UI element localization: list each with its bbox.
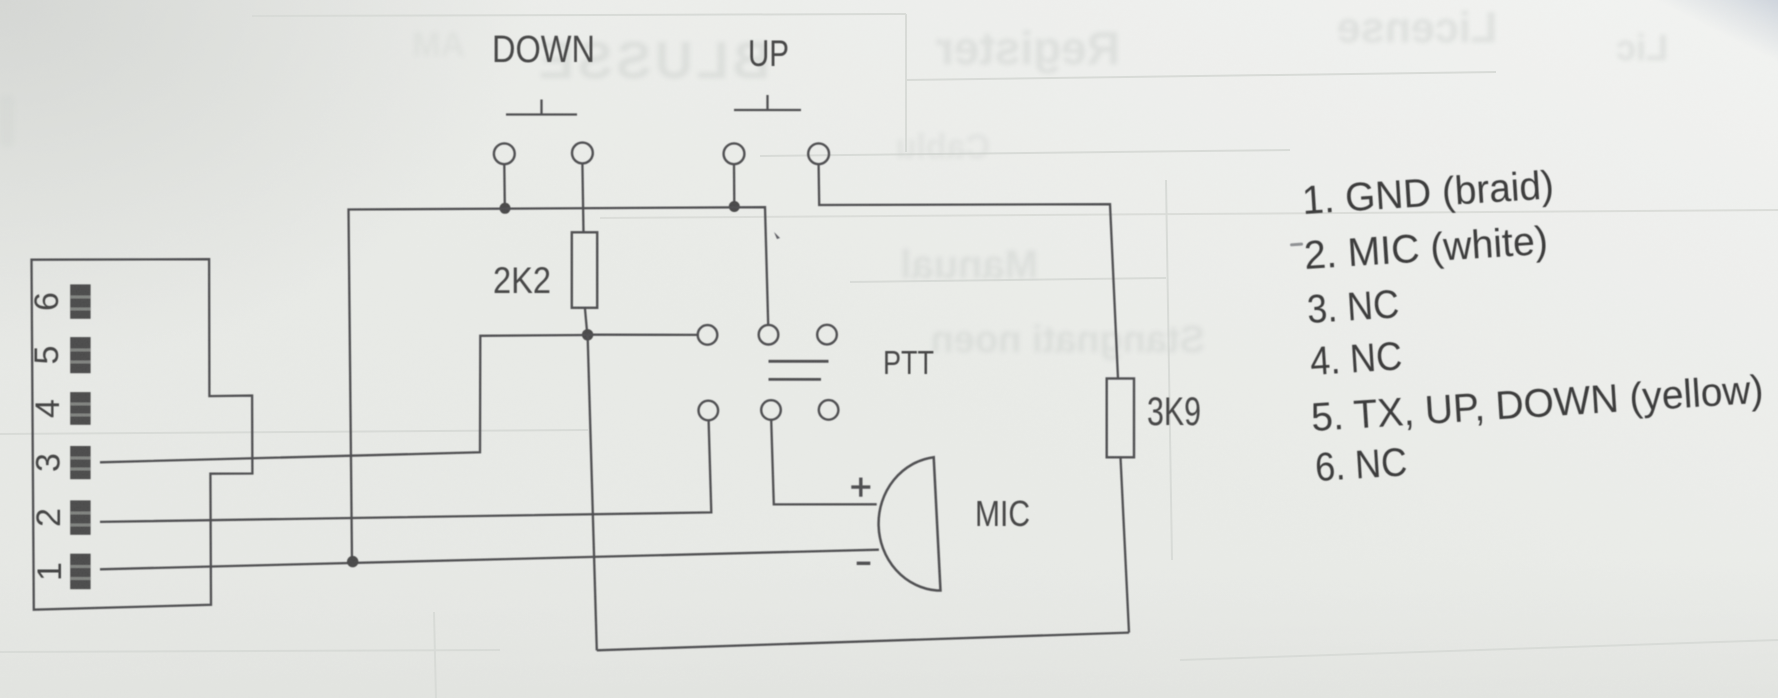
- wire S1 right lead to R1: [582, 164, 583, 233]
- wire R2 bottom lead: [1121, 457, 1130, 632]
- node junction dot DOWN: [500, 203, 511, 214]
- switch PTT bar upper: [769, 360, 829, 363]
- switch S1 contact circle right: [572, 143, 593, 164]
- connector pin pad 4: [70, 392, 90, 425]
- switch PTT contact bottom-right: [819, 400, 839, 420]
- label R1 value 2K2: [493, 260, 551, 301]
- wire S1 left lead: [503, 164, 506, 206]
- wire S2 right lead to R2 top: [819, 164, 1118, 378]
- pin number 5: [28, 346, 66, 365]
- switch S1 actuator: [506, 100, 577, 115]
- label PTT: [883, 344, 934, 381]
- legend line 1 GND: [1301, 163, 1555, 223]
- switch PTT contact top-left: [698, 325, 718, 345]
- switch S2 contact circle left: [724, 143, 745, 164]
- switch PTT contact top-right: [817, 325, 837, 345]
- label MIC: [975, 493, 1030, 534]
- MIC minus sign: [857, 562, 871, 565]
- paper grain: [0, 0, 1, 1]
- switch S2 contact circle right: [808, 143, 829, 164]
- bleed-through mirrored text from reverse page: [0, 4, 1668, 361]
- connector pin pad 6: [70, 284, 90, 318]
- wire R1 bottom lead: [585, 308, 587, 335]
- pin number 2: [30, 508, 68, 527]
- legend line 4 NC: [1309, 334, 1404, 384]
- pin number 4: [29, 399, 67, 418]
- wire junction down long vertical: [588, 335, 597, 651]
- resistor R2 3K9: [1107, 379, 1134, 458]
- label R2 value 3K9: [1147, 390, 1201, 434]
- wire S2 left lead: [733, 164, 736, 204]
- switch S1 contact circle left: [494, 143, 515, 164]
- legend line 5 TX UP DOWN: [1310, 368, 1765, 440]
- pin number 6: [28, 292, 66, 311]
- node junction dot pin1: [347, 556, 358, 567]
- resistor R1 2K2: [572, 232, 597, 307]
- wire junction to pin3: [100, 335, 588, 462]
- wire PTT bottom-middle to MIC plus: [771, 420, 877, 505]
- connector J1 outline: [32, 259, 253, 610]
- wire bottom bus: [597, 633, 1129, 651]
- microphone MIC element: [879, 457, 941, 590]
- connector pin pad 1: [70, 554, 90, 590]
- pin number 3: [30, 453, 68, 472]
- switch PTT contact top-middle: [759, 325, 779, 345]
- legend pinout list: [1301, 163, 1765, 490]
- legend line 3 NC: [1306, 282, 1401, 332]
- wire pin1 to MIC minus: [100, 550, 879, 570]
- stray ink speck: [774, 232, 780, 239]
- node junction dot below R1: [582, 329, 593, 340]
- switch S1 label DOWN: [492, 29, 595, 71]
- connector pin pad 5: [70, 337, 90, 373]
- switch PTT bar lower: [769, 378, 822, 381]
- connector pin pad 3: [70, 446, 90, 479]
- connector pin pad 2: [70, 500, 90, 534]
- wire junction to PTT top-left: [588, 334, 698, 336]
- node junction dot UP: [729, 201, 740, 212]
- legend line 6 NC: [1314, 440, 1409, 490]
- legend line 2 MIC: [1303, 219, 1549, 278]
- pin number 1: [31, 562, 69, 581]
- MIC plus sign: [851, 478, 870, 497]
- switch S2 actuator: [734, 95, 801, 110]
- wire top bus: [349, 207, 769, 561]
- switch PTT contact bottom-middle: [761, 400, 781, 420]
- wire pin2 to PTT bottom-left: [100, 420, 711, 522]
- switch S2 label UP: [748, 33, 789, 74]
- switch PTT contact bottom-left: [699, 401, 719, 421]
- stray ink dash: [1290, 243, 1303, 247]
